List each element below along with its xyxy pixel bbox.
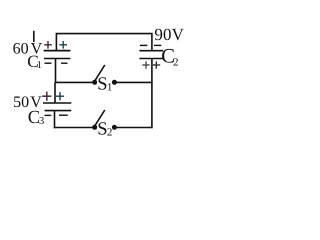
wire: middle wire right segment <box>116 81 152 83</box>
C2 plus sign left <box>142 61 149 68</box>
capacitor C1 plates <box>44 50 71 52</box>
C1 plus sign right <box>59 41 67 49</box>
wire: link from middle wire down to C3 <box>54 82 56 103</box>
svg-text:1: 1 <box>107 82 113 94</box>
wire: C3 bottom lead down to bottom wire <box>54 111 56 129</box>
C3 plus sign right <box>56 92 64 100</box>
switch S1 blade <box>95 65 105 81</box>
C3 minus signs <box>45 114 52 116</box>
capacitor C3 plates <box>43 102 71 104</box>
svg-text:90V: 90V <box>154 25 184 44</box>
wire: right wire from C2 down to bottom wire <box>151 59 153 129</box>
switch S2 blade <box>95 110 105 126</box>
wire: bottom wire right segment <box>116 127 152 129</box>
wire: bottom wire left segment <box>54 127 93 129</box>
C1 plus sign left <box>44 41 52 49</box>
wire: middle wire left segment <box>55 81 93 83</box>
wire: top wire with leads down to C1 and C2 <box>56 34 151 51</box>
svg-text:3: 3 <box>39 116 44 127</box>
switch S1 right contact dot <box>112 80 117 85</box>
wire: C1 bottom lead down to middle wire <box>55 59 57 83</box>
capacitor C2 plates <box>139 50 163 52</box>
switch S2 left contact dot <box>92 125 97 130</box>
svg-text:2: 2 <box>107 127 113 139</box>
C2 minus signs <box>140 44 147 46</box>
switch S2 right contact dot <box>112 125 117 130</box>
wire: stub above V of 60 V <box>33 31 35 42</box>
svg-text:60: 60 <box>13 40 29 57</box>
svg-text:1: 1 <box>37 60 42 71</box>
svg-text:50: 50 <box>13 94 29 111</box>
switch S1 left contact dot <box>92 80 97 85</box>
C3 plus sign left <box>42 92 51 101</box>
C2 plus sign right <box>153 61 160 68</box>
C1 minus signs <box>45 62 52 64</box>
svg-text:2: 2 <box>173 56 179 68</box>
